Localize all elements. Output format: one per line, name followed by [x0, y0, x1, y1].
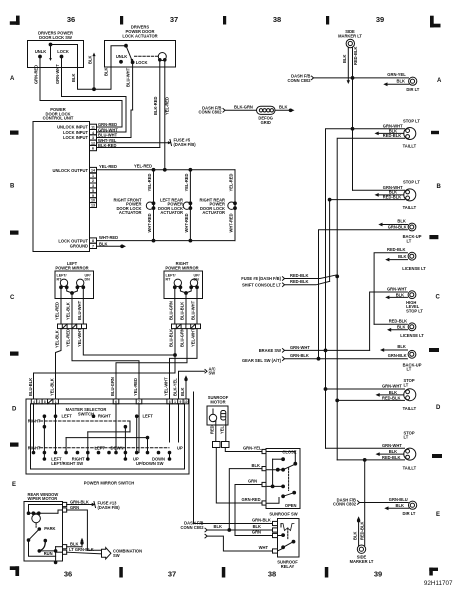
svg-text:YEL-BLK: YEL-BLK: [66, 302, 71, 320]
svg-text:BLU-GRN: BLU-GRN: [110, 377, 115, 396]
wire GRN sunroof sw to relay: [235, 479, 273, 536]
svg-text:(DASH F/B): (DASH F/B): [98, 505, 121, 510]
svg-text:LOCK INPUT: LOCK INPUT: [63, 135, 89, 140]
svg-text:BLK: BLK: [389, 449, 397, 454]
sunroof sw interior open: [266, 485, 296, 503]
zone letters left: [10, 76, 17, 488]
svg-text:LEFT: LEFT: [62, 414, 73, 419]
contact dots row 4: [32, 451, 171, 454]
license lt 2 labels: [389, 318, 425, 338]
svg-text:GRN-RED: GRN-RED: [34, 65, 39, 84]
dir lt A bulb: [406, 77, 419, 92]
svg-text:BLK-RED: BLK-RED: [98, 143, 116, 148]
svg-text:TAILLT: TAILLT: [403, 406, 417, 411]
fuse #8 feed: [241, 273, 337, 281]
back-up 1 ground BLK: [378, 223, 407, 227]
wire BLU-WHT from actuator lock: [97, 64, 133, 138]
svg-text:UNLOCK INPUT: UNLOCK INPUT: [57, 125, 88, 130]
selector contacts row 2: [43, 425, 127, 428]
wire WHT C802 to relay: [207, 536, 272, 551]
top edge ticks: [120, 16, 329, 25]
svg-text:GRN-BLK: GRN-BLK: [290, 353, 309, 358]
rear window wiper motor label: [28, 492, 59, 501]
svg-text:BLU-BLK: BLU-BLK: [28, 378, 33, 396]
dash f/b conn C802 row E label: [333, 497, 357, 506]
svg-text:LICENSE LT: LICENSE LT: [400, 333, 424, 338]
drivers power door lock sw label: [38, 31, 73, 40]
svg-text:DN: DN: [85, 278, 91, 282]
svg-text:GRN-WHT: GRN-WHT: [98, 127, 118, 132]
svg-text:CONN C802: CONN C802: [199, 110, 223, 115]
svg-text:SW: SW: [113, 553, 120, 558]
svg-text:TAILLT: TAILLT: [403, 144, 417, 149]
svg-text:4: 4: [92, 131, 94, 135]
frame corner bottom-right: [429, 568, 438, 576]
svg-text:37: 37: [168, 569, 176, 578]
wire GRN-BLK feed to relay: [194, 392, 273, 524]
svg-text:YEL-RED: YEL-RED: [229, 173, 234, 191]
taillt row B bulb: [404, 189, 416, 201]
svg-text:B: B: [437, 184, 442, 190]
wire BLK ground arrow at switch: [184, 375, 187, 399]
wire BLU-GRN right mirror to terminal 6: [116, 329, 187, 399]
svg-text:14: 14: [91, 169, 95, 173]
sunroof sw pins: [262, 449, 266, 505]
back-up lt 1 labels: [388, 219, 422, 244]
tail bus RED-BLK with row1 wire: [336, 138, 405, 460]
svg-text:SUNROOF SW: SUNROOF SW: [269, 511, 297, 516]
svg-text:E: E: [12, 482, 16, 488]
right front power door lock actuator: [114, 170, 155, 241]
sunroof motor armature: [209, 409, 226, 422]
svg-text:UP: UP: [177, 445, 183, 450]
shift console lt feed: [242, 279, 330, 287]
svg-text:RED-BLK: RED-BLK: [387, 247, 405, 252]
svg-text:BLK: BLK: [214, 524, 222, 529]
svg-text:36: 36: [64, 569, 72, 578]
master selector switch inner box: [31, 404, 185, 469]
terminal 7: [136, 399, 142, 404]
svg-text:POWER MIRROR: POWER MIRROR: [165, 265, 198, 270]
stop lt last row labels: [382, 430, 417, 470]
stop bus GRN-WHT with row1 wire: [324, 129, 404, 449]
svg-text:D: D: [436, 405, 441, 411]
sunroof motor box: [207, 406, 228, 425]
svg-text:BLK: BLK: [397, 325, 405, 330]
sunroof sw interior close: [266, 452, 297, 487]
sunroof relay name: [277, 560, 298, 569]
taillt row D ground BLK: [376, 393, 404, 397]
svg-text:CONN C802: CONN C802: [288, 78, 312, 83]
wire GRN-RED from UNLK: [34, 58, 123, 128]
right mirror motor L/R: [166, 274, 182, 289]
wire GRN-WHT from LOCK: [55, 58, 126, 133]
svg-text:12: 12: [91, 141, 95, 145]
sunroof sw label CLOSE: [282, 449, 296, 454]
power mirror switch outer box: [26, 399, 189, 474]
svg-text:GRN-YEL: GRN-YEL: [387, 72, 406, 77]
sw common wiper: [49, 43, 77, 67]
terminal 6: [113, 399, 119, 404]
svg-text:YEL-RED: YEL-RED: [147, 173, 152, 191]
svg-text:DIR LT: DIR LT: [406, 87, 419, 92]
svg-text:STOP LT: STOP LT: [403, 118, 420, 123]
svg-text:BLK: BLK: [253, 524, 261, 529]
left rear power door lock actuator: [158, 170, 192, 241]
svg-text:GRN-YEL: GRN-YEL: [243, 446, 262, 451]
svg-text:CONN C802: CONN C802: [181, 525, 205, 530]
svg-text:GRN-BLK: GRN-BLK: [252, 518, 271, 523]
svg-text:LOCK: LOCK: [57, 49, 69, 54]
wire GRN-RED motor to sunroof sw: [216, 448, 262, 504]
svg-text:LT: LT: [407, 238, 412, 243]
gear bus GRN-BLK with backup1 wire: [317, 230, 407, 360]
last row GRN-WHT wire: [326, 447, 405, 449]
right power mirror box: [164, 271, 203, 299]
svg-text:1: 1: [55, 400, 57, 404]
zone letters right: [436, 78, 443, 518]
svg-text:GRN-WHT: GRN-WHT: [55, 64, 60, 84]
wiper motor: [27, 505, 62, 523]
wire GRN-BLK to fuse 13: [67, 499, 96, 507]
actuator LOCK contact: [131, 60, 147, 65]
svg-text:OPEN: OPEN: [285, 503, 297, 508]
defog grid: [257, 106, 276, 125]
left mirror inline connector: [58, 324, 87, 329]
selector coupling dash 2: [40, 447, 169, 449]
svg-text:7: 7: [138, 400, 140, 404]
svg-text:C: C: [436, 295, 441, 301]
svg-text:RED: RED: [209, 425, 214, 434]
stop lt row1 labels: [383, 118, 421, 148]
right mirror inline connector: [172, 324, 201, 329]
svg-text:11: 11: [91, 126, 95, 130]
wire WHT-YEL to fuse arrow: [97, 140, 172, 146]
svg-text:WHT-RED: WHT-RED: [229, 213, 234, 232]
svg-text:GRN-BLK: GRN-BLK: [388, 224, 407, 229]
row D GRN-WHT wire: [326, 388, 405, 390]
svg-text:E: E: [436, 512, 440, 518]
side marker bottom label: [350, 555, 374, 564]
svg-text:BLK: BLK: [71, 74, 76, 82]
selector coupling dash 1: [28, 419, 130, 424]
last row RED-BLK wire: [337, 459, 404, 462]
frame corner bottom-left: [10, 566, 19, 576]
svg-text:1: 1: [92, 174, 94, 178]
wiper run arc: [38, 539, 53, 556]
svg-text:BLU-WHT: BLU-WHT: [98, 133, 118, 138]
terminal cluster left: [31, 399, 58, 404]
svg-text:A: A: [10, 76, 15, 82]
actuator common and arm: [125, 44, 134, 62]
svg-text:BLK: BLK: [104, 68, 109, 76]
up/down sw labels: [133, 457, 165, 467]
brake sw feed: [259, 345, 370, 353]
svg-text:DOWN: DOWN: [111, 445, 124, 450]
wire YEL-RED from motor to unlock rail: [163, 60, 169, 171]
dir lt E bulb: [403, 501, 417, 516]
svg-text:POWER MIRROR: POWER MIRROR: [55, 265, 88, 270]
wire BLK ground arrow: [67, 538, 84, 547]
svg-text:1: 1: [174, 400, 176, 404]
svg-text:POWER MIRROR SWITCH: POWER MIRROR SWITCH: [84, 481, 135, 486]
svg-text:GEAR SEL SW (A/T): GEAR SEL SW (A/T): [242, 358, 282, 363]
svg-text:BACK-UP: BACK-UP: [403, 362, 422, 367]
row D RED-BLK wire: [337, 399, 404, 401]
taillt row D bulb: [404, 389, 416, 401]
svg-text:RT: RT: [57, 278, 63, 282]
svg-text:BLK: BLK: [99, 241, 107, 246]
svg-text:UNLOCK OUTPUT: UNLOCK OUTPUT: [53, 168, 89, 173]
svg-text:GRN-WHT: GRN-WHT: [382, 443, 402, 448]
svg-text:STOP LT: STOP LT: [403, 180, 420, 185]
svg-text:YEL-RED: YEL-RED: [184, 173, 189, 191]
svg-text:ACTUATOR: ACTUATOR: [119, 210, 142, 215]
svg-text:LICENSE LT: LICENSE LT: [402, 266, 426, 271]
svg-text:YEL: YEL: [219, 426, 224, 434]
license 2 ground BLK: [387, 328, 408, 332]
svg-text:2: 2: [92, 179, 94, 183]
svg-text:GRN-BLK: GRN-BLK: [70, 499, 89, 504]
shift console bus: [328, 198, 331, 281]
wire BLK U-link to actuator: [71, 46, 126, 89]
svg-text:YEL-RED: YEL-RED: [133, 378, 138, 396]
pin 12 fuse feed: [90, 138, 117, 146]
wiper park contact: [36, 523, 55, 531]
right mirror common: [180, 287, 191, 294]
svg-text:8: 8: [44, 400, 46, 404]
defog feed wire BLK-GRN: [223, 104, 257, 112]
svg-text:RED-BLK: RED-BLK: [382, 455, 400, 460]
wire BLK sunroof sw to conn junction: [228, 463, 262, 532]
svg-text:BLK: BLK: [396, 503, 404, 508]
svg-text:RED-BLK: RED-BLK: [290, 273, 308, 278]
sunroof sw coupling dash: [288, 468, 290, 491]
row E wire GRN-BLU: [358, 497, 409, 505]
svg-text:C: C: [10, 295, 15, 301]
back-up lt 2 labels: [388, 344, 422, 371]
svg-text:BLK: BLK: [180, 388, 185, 396]
svg-text:13: 13: [91, 204, 95, 208]
pin 7 ground: [70, 241, 108, 248]
taillt row B ground BLK: [375, 193, 404, 197]
svg-text:YEL-RED: YEL-RED: [99, 164, 117, 169]
svg-text:BLU-WHT: BLU-WHT: [77, 300, 82, 320]
svg-text:GRN-BLK: GRN-BLK: [388, 353, 407, 358]
drivers power door lock sw box: [28, 41, 84, 68]
left mirror common: [67, 287, 78, 294]
license 2 bulb: [408, 323, 416, 331]
svg-text:(DASH F/B): (DASH F/B): [174, 142, 197, 147]
svg-text:36: 36: [67, 15, 75, 24]
sunroof sw label OPEN: [285, 503, 297, 508]
sw UNLK contact: [35, 49, 46, 58]
dir lt E ground BLK: [384, 503, 409, 510]
left mirror motor U/D: [76, 274, 91, 289]
svg-text:GROUND: GROUND: [70, 244, 88, 249]
svg-text:TAILLT: TAILLT: [403, 205, 417, 210]
svg-text:B: B: [10, 184, 15, 190]
license 1 ground BLK: [385, 258, 407, 262]
right rear power door lock actuator: [200, 170, 237, 241]
svg-text:3: 3: [92, 184, 94, 188]
svg-text:CONN C802: CONN C802: [333, 502, 357, 507]
stop lt row D labels: [382, 378, 417, 411]
svg-text:TAILLT: TAILLT: [403, 466, 417, 471]
side marker bottom bulb: [357, 545, 365, 553]
svg-text:LOCK: LOCK: [136, 60, 148, 65]
dir lt A ground BLK: [383, 79, 409, 87]
svg-text:BACK-UP: BACK-UP: [403, 234, 422, 239]
combination sw label: [113, 549, 142, 558]
svg-text:BLK: BLK: [389, 390, 397, 395]
license feed bus: [374, 253, 407, 325]
side marker bottom RED-BLK riser: [359, 460, 364, 546]
svg-text:YEL-BLK: YEL-BLK: [49, 378, 54, 396]
svg-text:LT GRN-BLK: LT GRN-BLK: [69, 547, 94, 552]
svg-text:BLK: BLK: [397, 79, 405, 84]
svg-text:STOP LT: STOP LT: [406, 309, 423, 314]
license lt 1 labels: [387, 247, 426, 271]
grid numbers top: [67, 15, 384, 24]
high level stop feed from brake wire: [370, 292, 408, 350]
svg-text:7: 7: [92, 245, 94, 249]
wiper run wire: [39, 547, 62, 564]
sunroof relay box: [278, 519, 300, 558]
side marker lt top label: [338, 29, 362, 38]
svg-text:BLK: BLK: [279, 104, 287, 109]
terminal group right: [167, 399, 189, 404]
svg-text:9: 9: [92, 194, 94, 198]
svg-text:GRN-BLU: GRN-BLU: [389, 497, 408, 502]
svg-text:BRAKE SW: BRAKE SW: [259, 348, 281, 353]
right mirror motor U/D: [190, 274, 200, 289]
high level stop ground BLK: [385, 296, 407, 300]
svg-text:LT: LT: [404, 435, 409, 440]
high level stop lt labels: [387, 286, 423, 313]
svg-text:CONTROL UNIT: CONTROL UNIT: [43, 116, 74, 121]
wire YEL-WHT left to junction: [83, 329, 176, 357]
svg-text:UNLK: UNLK: [116, 54, 127, 59]
svg-text:GRN: GRN: [248, 479, 257, 484]
wiper switch arm: [27, 529, 55, 556]
svg-text:YEL-BLK: YEL-BLK: [55, 330, 60, 348]
svg-text:3: 3: [92, 136, 94, 140]
back-up 1 bulb: [408, 223, 416, 231]
svg-text:BLK: BLK: [396, 292, 404, 297]
wire YEL-WHT right mirror to terminal 8: [170, 329, 198, 399]
pin 8 lock output: [58, 235, 118, 243]
svg-text:WHT: WHT: [259, 545, 269, 550]
grid numbers bottom: [64, 569, 382, 578]
svg-text:YEL-WHT: YEL-WHT: [191, 328, 196, 347]
pin 10 unlock output: [53, 164, 117, 173]
svg-text:RED-BLK: RED-BLK: [359, 522, 364, 540]
actuator dashed link to motor: [135, 55, 158, 57]
svg-text:BLK: BLK: [398, 254, 406, 259]
right edge zone ticks: [429, 131, 442, 458]
unlock output rail YEL-RED: [97, 164, 236, 172]
taillt last bulb: [404, 448, 416, 460]
wire BLK-RED from motor: [97, 60, 160, 148]
svg-text:RED-BLK: RED-BLK: [382, 395, 400, 400]
svg-text:MOTOR: MOTOR: [210, 399, 225, 404]
svg-text:WIPER MOTOR: WIPER MOTOR: [28, 496, 58, 501]
svg-text:LOCK OUTPUT: LOCK OUTPUT: [58, 238, 88, 243]
bottom edge ticks: [119, 567, 328, 578]
power door lock control unit box: [33, 122, 90, 252]
left power mirror label: [55, 261, 88, 270]
svg-text:YEL-RED: YEL-RED: [134, 164, 152, 169]
sunroof motor label: [208, 395, 229, 404]
taillt row1 ground BLK: [375, 132, 404, 136]
svg-text:GRN-WHT: GRN-WHT: [290, 345, 310, 350]
svg-text:BLU-WHT: BLU-WHT: [125, 67, 130, 87]
wire BLK-YEL to A/C SW: [179, 366, 216, 399]
svg-text:LEFT: LEFT: [143, 414, 154, 419]
master selector switch label: [66, 407, 107, 416]
sw LOCK contact: [57, 49, 69, 58]
svg-text:BLK-RED: BLK-RED: [153, 97, 158, 115]
svg-text:RIGHT: RIGHT: [28, 419, 41, 424]
unused pin stack: [90, 173, 97, 207]
svg-text:YEL-RED: YEL-RED: [164, 97, 169, 115]
side marker lt top bulb: [346, 39, 354, 47]
side marker RED-BLK stem joins C802 bus: [353, 47, 359, 78]
svg-text:GRN-WHT: GRN-WHT: [382, 384, 402, 389]
left edge ticks: [10, 131, 19, 447]
right mirror wires below connector: [169, 328, 196, 347]
wiper pins: [63, 502, 67, 554]
right power mirror label: [165, 261, 198, 270]
power mirror switch label: [84, 481, 135, 486]
combination sw arrow: [102, 548, 111, 559]
left mirror motor L/R: [57, 274, 69, 289]
actuator motor: [158, 53, 166, 61]
svg-text:BLK: BLK: [352, 532, 357, 540]
ground wire arrow: [97, 244, 127, 248]
C802 to dir lt wire GRN-YEL row A: [312, 72, 409, 80]
left power mirror box: [55, 271, 94, 299]
svg-text:SW: SW: [209, 371, 216, 376]
wire BLU-BLK right mirror long run to left terminals: [34, 329, 176, 399]
svg-text:LT: LT: [404, 382, 409, 387]
left mirror wires below connector: [55, 328, 82, 348]
drivers power door lock actuator label: [122, 25, 157, 39]
high level stop bulb: [408, 291, 416, 299]
selector contacts row 1: [43, 414, 153, 419]
side marker bottom BLK stem with up arrow: [352, 516, 360, 546]
stop lt row B labels: [383, 180, 421, 211]
svg-text:GRN-WHT: GRN-WHT: [387, 286, 407, 291]
left/right sw labels: [51, 457, 85, 467]
pin 4 lock input: [63, 127, 118, 135]
svg-text:8: 8: [92, 239, 94, 243]
sunroof sw box: [266, 449, 300, 509]
contact dots row 5: [43, 416, 171, 460]
side marker BLK stem with down arrow: [342, 47, 350, 84]
defog ground wire BLK: [275, 104, 295, 112]
back-up 2 bulb: [408, 350, 416, 358]
rear window wiper motor box: [24, 502, 63, 562]
wire LT GRN-BLK to combination sw: [67, 547, 102, 554]
svg-text:GRN-RED: GRN-RED: [98, 122, 117, 127]
relay contacts: [278, 528, 295, 551]
svg-text:BLK-YEL: BLK-YEL: [173, 378, 178, 396]
svg-text:MARKER LT: MARKER LT: [350, 559, 374, 564]
svg-text:2: 2: [39, 400, 41, 404]
svg-text:LOCK ACTUATOR: LOCK ACTUATOR: [122, 33, 157, 38]
